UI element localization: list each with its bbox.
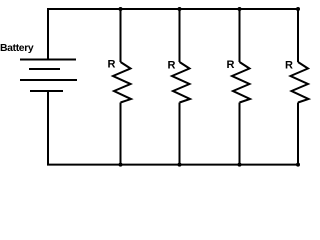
wire: branch 2 bottom lead — [179, 103, 181, 165]
wire: branch 1 top lead — [120, 9, 122, 62]
wire: branch 4 top lead — [297, 9, 299, 62]
wire: bottom bus — [47, 164, 300, 166]
node: bottom junction branch 3 — [238, 163, 242, 167]
svg-text:R: R — [168, 60, 176, 72]
resistor R2 — [172, 62, 190, 103]
wire: battery bottom lead — [47, 91, 49, 166]
node: bottom junction branch 1 — [119, 163, 123, 167]
svg-text:R: R — [108, 59, 116, 71]
wire: battery top lead — [47, 8, 49, 60]
wire: branch 4 bottom lead — [297, 103, 299, 165]
node: top junction branch 3 — [238, 7, 242, 11]
node: bottom junction branch 2 — [178, 163, 182, 167]
wire: branch 3 top lead — [239, 9, 241, 62]
node: bottom-right corner junction — [296, 163, 300, 167]
svg-text:R: R — [285, 60, 293, 72]
svg-text:R: R — [227, 59, 235, 71]
node: top-right corner junction — [296, 7, 300, 11]
node: top junction branch 2 — [178, 7, 182, 11]
battery B1 — [20, 60, 77, 92]
resistor R1 — [113, 62, 131, 103]
wire: top bus — [47, 8, 300, 10]
node: top junction branch 1 — [119, 7, 123, 11]
wire: branch 3 bottom lead — [239, 103, 241, 165]
wire: branch 1 bottom lead — [120, 103, 122, 165]
resistor R3 — [232, 62, 250, 103]
resistor R4 — [291, 62, 309, 103]
wire: branch 2 top lead — [179, 9, 181, 62]
svg-text:Battery: Battery — [0, 43, 34, 54]
